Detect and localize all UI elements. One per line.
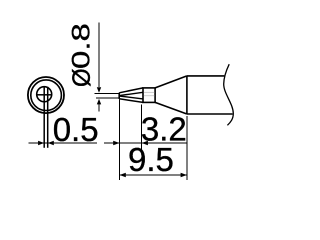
end view: middle circle <box>31 80 62 111</box>
dimension 3.2: dimension line <box>104 142 187 144</box>
side view: wedge inner bottom line <box>119 96 143 99</box>
extension line at tip (x=119.5) <box>119 99 121 180</box>
dimension Ø0.8: lower dimension line <box>98 104 100 112</box>
side view: wedge outer top line <box>119 88 143 93</box>
extension line at 9.5 (x=186.9) <box>186 116 188 180</box>
side view: cylinder front edge <box>186 76 188 114</box>
side view: wedge inner top line <box>119 92 143 95</box>
dimension 3.2: left arrowhead <box>113 141 119 146</box>
side view: collar box <box>143 88 155 103</box>
end view: chisel edge right line / extension line <box>47 87 49 148</box>
svg-text:Ø: Ø <box>68 68 96 87</box>
dimension 0.5: dimension line <box>29 142 98 144</box>
dimension 9.5: left arrowhead (inside, pointing left) <box>120 173 126 178</box>
svg-text:0.8: 0.8 <box>67 23 95 69</box>
side view: cylinder bottom line <box>187 113 233 115</box>
dimension Ø0.8: upper dimension line <box>98 23 100 88</box>
svg-text:0.5: 0.5 <box>53 111 99 148</box>
side view: collar faint inner line lower <box>144 95 154 97</box>
side view: cone bottom line <box>155 102 187 114</box>
side view: cylinder top line <box>187 75 225 77</box>
end view: outer circle (shank) <box>28 77 64 113</box>
dimension 0.5: right arrowhead <box>48 141 54 146</box>
dimension 3.2: right arrowhead <box>142 141 148 146</box>
side view: chisel tip edge <box>118 93 120 99</box>
end view: chisel edge horizontal line <box>37 94 52 96</box>
dimension Ø0.8: lower extension line <box>96 97 119 99</box>
end view: chisel edge left line / extension line <box>43 87 45 148</box>
extension line at 3.2 (x=141.6) <box>141 105 143 151</box>
side view: wedge outer bottom line <box>119 99 143 103</box>
dimension Ø0.8: upper arrowhead (down) <box>97 87 101 93</box>
dimension 9.5: dimension line <box>120 174 187 176</box>
dimension 0.5: left arrowhead <box>38 141 44 146</box>
side view: break line (S-curve) <box>224 64 234 125</box>
side view: cone top line <box>155 76 187 88</box>
svg-text:9.5: 9.5 <box>128 141 174 178</box>
side view: collar faint inner line upper <box>144 91 154 93</box>
dimension 9.5: right arrowhead (inside, pointing right) <box>181 173 187 178</box>
dimension Ø0.8: upper extension line <box>95 93 120 95</box>
dimension Ø0.8: lower arrowhead (up) <box>97 99 101 105</box>
end view: inner tip circle <box>37 87 52 102</box>
